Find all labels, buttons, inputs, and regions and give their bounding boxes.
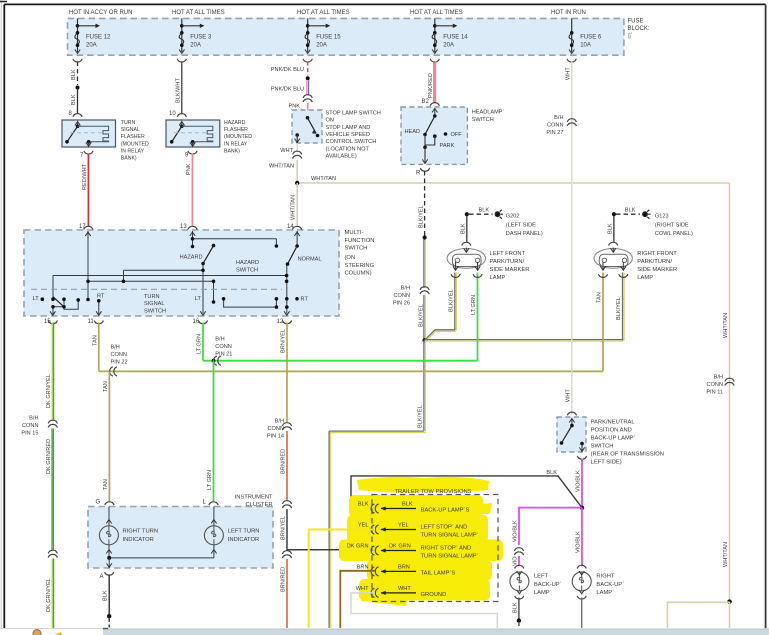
wire WHT fuse6 down — [571, 62, 573, 415]
svg-text:SIDE MARKER: SIDE MARKER — [637, 267, 677, 273]
wire LT GRN horizontal run — [203, 360, 478, 362]
svg-text:WHT: WHT — [356, 586, 369, 592]
svg-text:DK GRN/YEL: DK GRN/YEL — [46, 578, 52, 612]
svg-text:TAN: TAN — [103, 381, 109, 392]
svg-text:B/H: B/H — [111, 345, 120, 351]
turn signal blade — [53, 297, 64, 307]
junction node — [107, 556, 111, 560]
svg-text:20A: 20A — [316, 42, 327, 48]
svg-text:PARK/TURN/: PARK/TURN/ — [637, 259, 672, 265]
svg-text:20A: 20A — [443, 42, 454, 48]
bottom ui strip — [0, 628, 769, 635]
cluster ground bus — [109, 557, 214, 559]
wire BLK/YEL down-left to bottom — [329, 340, 425, 628]
junction node BLK/YEL — [422, 338, 426, 342]
svg-text:BLOCK:: BLOCK: — [628, 26, 650, 32]
fuse F3 20A — [177, 18, 212, 62]
label right back-up lamp — [596, 574, 624, 597]
connector upper — [282, 501, 291, 508]
svg-text:TAN: TAN — [597, 292, 603, 303]
svg-text:PIN 11: PIN 11 — [706, 390, 723, 396]
svg-text:MULTI-: MULTI- — [345, 230, 364, 236]
svg-text:20A: 20A — [86, 42, 97, 48]
wire VIO/BLK to left back-up lamp — [519, 508, 582, 545]
label INSTRUMENT CLUSTER — [235, 494, 273, 507]
pin A — [105, 572, 114, 575]
ground G202 — [495, 210, 503, 219]
svg-text:FUSE 15: FUSE 15 — [316, 35, 341, 41]
label turn signal flasher — [121, 120, 149, 162]
junction splice — [76, 86, 80, 90]
svg-text:(LEFT SIDE: (LEFT SIDE — [506, 222, 536, 228]
svg-text:PIN 15: PIN 15 — [21, 431, 38, 437]
svg-text:(RIGHT SIDE: (RIGHT SIDE — [655, 222, 689, 228]
svg-text:HOT AT ALL TIMES: HOT AT ALL TIMES — [172, 10, 225, 16]
svg-text:PNK: PNK — [288, 104, 300, 110]
svg-text:BRN: BRN — [398, 564, 410, 570]
normal blade — [286, 244, 299, 266]
svg-text:WHT: WHT — [566, 67, 572, 80]
wire BLK/WHT fuse3 — [181, 62, 183, 115]
junction splice — [306, 76, 310, 80]
label stop lamp switch — [326, 111, 381, 160]
connector B/H CONN PIN 27 — [567, 119, 576, 126]
wire WHT/TAN to bottom — [729, 602, 731, 628]
svg-text:PIN 21: PIN 21 — [215, 352, 232, 358]
svg-text:WHT: WHT — [398, 586, 411, 592]
svg-text:SIGNAL: SIGNAL — [144, 301, 165, 307]
svg-text:VIO: VIO — [513, 556, 519, 566]
label park/neutral switch — [591, 420, 664, 466]
svg-text:HAZARD: HAZARD — [180, 254, 203, 260]
wire VIO to lamp — [518, 556, 520, 566]
junction node — [295, 181, 299, 185]
wire WHT below stop switch — [296, 143, 298, 152]
hazard flasher U2 box — [166, 120, 220, 147]
svg-text:BLK/WHT: BLK/WHT — [176, 78, 182, 103]
svg-text:TURN SIGNAL LAMPʾ: TURN SIGNAL LAMPʾ — [421, 531, 479, 538]
pin 9 — [188, 151, 197, 154]
svg-text:BLK/YEL: BLK/YEL — [418, 405, 424, 428]
wire DK GRN/YEL pin 15 — [52, 323, 53, 421]
svg-text:BLK/YEL: BLK/YEL — [449, 289, 455, 312]
svg-text:BLK: BLK — [103, 590, 109, 601]
svg-text:STOP LAMP AND: STOP LAMP AND — [326, 125, 371, 131]
connector at park/neutral switch — [567, 412, 576, 415]
connector pair VIO — [514, 548, 523, 555]
wire YEL to trailer — [309, 530, 375, 629]
wire BRN/YEL pin 12 — [286, 323, 288, 423]
wire VIO/BLK down — [581, 459, 583, 508]
wire to pin A — [108, 558, 110, 568]
svg-text:10: 10 — [169, 111, 176, 117]
wire WHT/TAN to pin 14 — [296, 183, 298, 227]
label FUSE BLOCK — [628, 19, 650, 40]
dashed divider — [31, 288, 282, 290]
svg-text:LAMPʾ: LAMPʾ — [637, 274, 655, 281]
svg-text:FUSE: FUSE — [628, 19, 644, 25]
svg-text:BACK-UPʾ: BACK-UPʾ — [596, 581, 624, 588]
wire WHT/TAN bottom branch — [667, 602, 729, 628]
svg-text:HOT IN RUN: HOT IN RUN — [551, 10, 586, 16]
wire BLK solid — [77, 90, 79, 115]
svg-text:CONN: CONN — [268, 426, 284, 432]
svg-text:BRN/RED: BRN/RED — [281, 449, 287, 474]
wire WHT/TAN horizontal run — [297, 182, 729, 184]
svg-text:LAMPʾ: LAMPʾ — [534, 589, 552, 596]
label headlamp switch — [472, 109, 505, 124]
svg-text:IN RELAY: IN RELAY — [224, 141, 248, 147]
svg-text:SWITCH: SWITCH — [144, 308, 166, 314]
svg-text:CLUSTER: CLUSTER — [246, 502, 273, 508]
connector B/H CONN PIN 26 — [420, 287, 429, 294]
svg-text:TURN: TURN — [121, 120, 136, 126]
label multi-function switch — [345, 230, 375, 277]
turn signal flasher U1 box — [62, 120, 116, 147]
svg-text:PNK/DK BLU: PNK/DK BLU — [271, 67, 304, 73]
svg-text:STEERING: STEERING — [345, 263, 375, 269]
junction node LT GRN — [212, 359, 216, 363]
junction splice — [107, 614, 111, 618]
wire BLK trailer backup feed — [351, 476, 582, 509]
contact dots — [41, 237, 299, 309]
svg-text:PARK/NEUTRAL: PARK/NEUTRAL — [591, 420, 636, 426]
svg-text:TRAILER TOW PROVISIONS: TRAILER TOW PROVISIONS — [394, 489, 471, 495]
svg-text:CONN: CONN — [22, 423, 38, 429]
right front park/turn/side marker lamp L2 — [594, 212, 632, 277]
switch interior wiring — [53, 231, 297, 316]
label TURN SIGNAL SWITCH — [144, 294, 166, 314]
svg-text:A: A — [100, 574, 104, 580]
svg-text:VIO/BLK: VIO/BLK — [513, 520, 519, 542]
svg-text:FLASHER: FLASHER — [121, 134, 145, 140]
wire below right back-up lamp — [581, 598, 583, 629]
wire BRN/RED to bottom — [286, 559, 288, 628]
svg-text:WHT/TAN: WHT/TAN — [723, 313, 729, 338]
svg-text:LEFT FRONT: LEFT FRONT — [490, 251, 526, 257]
svg-text:B/H: B/H — [401, 286, 410, 292]
svg-text:BLK: BLK — [546, 470, 557, 476]
svg-text:CONN: CONN — [111, 352, 127, 358]
wire PNK — [191, 154, 193, 227]
ground G123 — [643, 210, 651, 219]
svg-text:RIGHT FRONT: RIGHT FRONT — [637, 251, 677, 257]
svg-text:CONN: CONN — [547, 123, 563, 129]
svg-text:BACK-UPʾ: BACK-UPʾ — [534, 581, 562, 588]
multi-function switch S4 box — [24, 230, 339, 316]
svg-text:BANK): BANK) — [224, 148, 240, 154]
svg-text:BLK: BLK — [479, 208, 490, 214]
junction splice — [423, 235, 427, 239]
connector pair — [293, 151, 302, 158]
svg-text:HEAD: HEAD — [404, 129, 420, 135]
trailer row BLK back-up lamps — [358, 502, 470, 514]
svg-text:FUSE 12: FUSE 12 — [86, 35, 111, 41]
svg-text:BLK: BLK — [71, 69, 77, 80]
svg-text:BLK: BLK — [461, 223, 467, 234]
svg-text:LAMPʾ: LAMPʾ — [490, 274, 508, 281]
svg-text:POSITION AND: POSITION AND — [591, 428, 632, 434]
wire LT GRN branch to cluster — [213, 361, 215, 502]
svg-text:(MOUNTED: (MOUNTED — [121, 141, 149, 147]
svg-text:BRN/RED: BRN/RED — [281, 567, 287, 592]
svg-text:TAN: TAN — [93, 335, 99, 346]
svg-text:WHT/TAN: WHT/TAN — [723, 542, 729, 567]
svg-text:WHT/TAN: WHT/TAN — [291, 195, 297, 220]
svg-text:WHT/TAN: WHT/TAN — [269, 164, 294, 170]
svg-text:HOT IN ACCY OR RUN: HOT IN ACCY OR RUN — [69, 10, 132, 16]
svg-text:BACK-UP LAMPʾS: BACK-UP LAMPʾS — [421, 507, 470, 514]
svg-text:BRN/YEL: BRN/YEL — [281, 329, 287, 353]
svg-text:SWITCH: SWITCH — [236, 267, 258, 273]
svg-text:SWITCH: SWITCH — [345, 246, 368, 252]
label left back-up lamp — [534, 574, 562, 597]
wire BLK/YEL jog to left front lamp — [425, 273, 457, 342]
svg-text:COWL PANEL): COWL PANEL) — [655, 231, 693, 237]
svg-text:BLK: BLK — [625, 208, 636, 214]
svg-text:G202: G202 — [506, 214, 520, 220]
svg-text:OFF: OFF — [451, 132, 463, 138]
fuse F15 20A — [303, 18, 341, 62]
svg-text:FUNCTION: FUNCTION — [345, 238, 375, 244]
svg-text:LEFT: LEFT — [534, 574, 549, 580]
wire VIO/BLK to right back-up lamp — [581, 508, 583, 566]
svg-text:STOP LAMP SWITCH: STOP LAMP SWITCH — [326, 111, 381, 117]
label right turn indicator — [123, 528, 159, 543]
fuse F6 10A — [567, 18, 602, 62]
svg-text:PNK/RED: PNK/RED — [428, 73, 434, 98]
svg-text:RT: RT — [97, 294, 105, 300]
svg-text:INDICATOR: INDICATOR — [123, 537, 154, 543]
left back-up lamp L3 — [510, 565, 529, 599]
svg-text:INDICATOR: INDICATOR — [228, 537, 259, 543]
connector below switch — [577, 456, 586, 459]
svg-text:RIGHT TURN: RIGHT TURN — [123, 528, 159, 534]
svg-text:LEFT SIDE): LEFT SIDE) — [591, 460, 622, 466]
fuse F12 20A — [73, 18, 111, 62]
svg-text:LEFT TURN: LEFT TURN — [228, 528, 260, 534]
fuse F14 20A — [430, 18, 468, 62]
wire BRN/YEL dark segment — [287, 509, 375, 550]
svg-text:BLK/YEL: BLK/YEL — [418, 205, 424, 228]
wire DK GRN/YEL to bottom — [52, 559, 53, 629]
svg-text:LT: LT — [33, 296, 40, 302]
svg-text:FLASHER: FLASHER — [224, 127, 248, 133]
svg-text:PIN 27: PIN 27 — [546, 130, 563, 136]
svg-text:LT GRN: LT GRN — [471, 295, 477, 315]
svg-text:INSTRUMENT: INSTRUMENT — [235, 494, 273, 500]
label left front lamp — [490, 251, 530, 281]
svg-text:GROUND: GROUND — [421, 592, 447, 598]
svg-text:CONTROL SWITCH: CONTROL SWITCH — [326, 139, 377, 145]
svg-text:BLK: BLK — [71, 94, 77, 105]
svg-text:BACK-UP LAMPʾ: BACK-UP LAMPʾ — [591, 435, 636, 442]
svg-text:RIGHT STOPʾ AND: RIGHT STOPʾ AND — [421, 544, 472, 551]
connector lower — [48, 550, 57, 557]
svg-text:PARK/TURN/: PARK/TURN/ — [490, 259, 525, 265]
svg-text:LAMPʾ: LAMPʾ — [596, 589, 614, 596]
svg-text:B/H: B/H — [714, 375, 723, 381]
wire LT GRN left lamp riser — [477, 273, 479, 361]
svg-text:DK GRN/YEL: DK GRN/YEL — [46, 374, 52, 408]
trailer highlight marks — [339, 477, 503, 606]
label right front lamp — [637, 251, 677, 281]
svg-text:CONN: CONN — [394, 293, 410, 299]
headlamp switch S2 box — [401, 107, 467, 164]
svg-text:B2: B2 — [422, 99, 430, 105]
svg-text:BLK: BLK — [358, 502, 369, 508]
svg-text:LT GRN: LT GRN — [197, 334, 203, 354]
wire TAN pin 11 — [98, 323, 100, 372]
svg-text:(ON: (ON — [345, 255, 356, 261]
junction splice — [517, 618, 521, 622]
wire BLK below left back-up lamp — [518, 598, 520, 619]
wire BLK/YEL down to PIN26 conn — [424, 240, 426, 289]
pin 7 — [84, 151, 93, 154]
svg-text:WHT: WHT — [280, 148, 293, 154]
svg-text:R: R — [416, 171, 421, 177]
svg-text:VIO/BLK: VIO/BLK — [576, 531, 582, 553]
svg-text:SIGNAL: SIGNAL — [121, 127, 140, 133]
trailer row WHT ground — [356, 586, 447, 598]
wire PNK into stop lamp switch — [307, 103, 309, 118]
svg-text:BLK: BLK — [402, 502, 413, 508]
svg-text:20A: 20A — [190, 42, 201, 48]
svg-text:FUSE 3: FUSE 3 — [190, 35, 212, 41]
svg-text:FUSE 14: FUSE 14 — [443, 35, 468, 41]
connector B/H CONN PIN 15 — [48, 420, 57, 427]
svg-text:(LOCATION NOT: (LOCATION NOT — [326, 146, 370, 152]
svg-text:SIDE MARKER: SIDE MARKER — [490, 267, 530, 273]
pin R — [420, 168, 429, 171]
wire BLK dashed to G202 — [469, 213, 493, 215]
wire BRN/RED — [286, 431, 288, 501]
exit arrows bottom pins — [50, 311, 55, 315]
svg-text:G123: G123 — [655, 214, 669, 220]
svg-text:HOT AT ALL TIMES: HOT AT ALL TIMES — [297, 10, 350, 16]
svg-text:B/H: B/H — [275, 419, 284, 425]
svg-text:WHT/TAN: WHT/TAN — [311, 176, 336, 182]
svg-text:YEL: YEL — [358, 523, 369, 529]
svg-text:BRN: BRN — [357, 564, 369, 570]
svg-text:DK GRN: DK GRN — [347, 544, 369, 550]
wire TAN horizontal run — [99, 370, 603, 372]
svg-text:▯ʾ: ▯ʾ — [628, 33, 633, 40]
right turn indicator lamp — [99, 507, 118, 558]
wire RED/WHT — [87, 154, 89, 227]
wire TAN right lamp riser — [602, 273, 604, 372]
svg-text:PNK/DK BLU: PNK/DK BLU — [271, 87, 304, 93]
left turn indicator lamp — [204, 507, 223, 558]
svg-text:TAN: TAN — [103, 479, 109, 490]
svg-text:IN RELAY: IN RELAY — [121, 148, 145, 154]
svg-text:G: G — [96, 500, 101, 506]
svg-text:CONN: CONN — [215, 344, 231, 350]
park/neutral position and back-up lamp switch S3 — [557, 417, 586, 452]
svg-text:NORMAL: NORMAL — [298, 257, 322, 263]
svg-text:BLK: BLK — [608, 223, 614, 234]
svg-text:AVAILABLE): AVAILABLE) — [326, 154, 357, 160]
right back-up lamp L4 — [572, 565, 591, 599]
svg-text:WHT: WHT — [566, 389, 572, 402]
svg-text:YEL: YEL — [398, 523, 409, 529]
svg-text:RT: RT — [301, 297, 309, 303]
wire BLK fuse12 to flasher (dashed) — [77, 62, 79, 86]
svg-text:11: 11 — [88, 319, 95, 325]
wire BLK/YEL conn to junction — [424, 295, 426, 340]
wire BLK dash stub — [518, 623, 520, 628]
svg-text:RIGHT: RIGHT — [596, 574, 614, 580]
svg-text:TURN: TURN — [144, 294, 160, 300]
wire BLK dashed to G123 — [616, 213, 640, 215]
connector B/H CONN PIN 14 — [282, 423, 291, 430]
wire PNK/DK BLU dashed — [307, 62, 309, 76]
connector lower — [282, 551, 291, 558]
wire PNK/DK BLU solid — [307, 80, 309, 95]
trailer tow provisions box — [372, 495, 498, 602]
connector pair — [303, 95, 312, 102]
svg-text:(REAR OF TRANSMISSION: (REAR OF TRANSMISSION — [591, 452, 664, 458]
svg-text:PARK: PARK — [440, 143, 455, 149]
svg-text:VEHICLE SPEED: VEHICLE SPEED — [326, 132, 370, 138]
connector B/H CONN PIN 22 — [110, 367, 117, 376]
svg-text:LT: LT — [195, 296, 202, 302]
svg-text:DASH PANEL): DASH PANEL) — [506, 231, 543, 237]
svg-text:LEFT STOPʾ AND: LEFT STOPʾ AND — [421, 523, 468, 530]
svg-text:(MOUNTED: (MOUNTED — [224, 134, 252, 140]
label left turn indicator — [228, 528, 260, 543]
wire WHT/TAN right vertical — [729, 183, 731, 602]
wire LT GRN pin 16 — [202, 323, 204, 361]
svg-text:ON: ON — [326, 118, 334, 124]
svg-text:B/H: B/H — [215, 337, 224, 343]
svg-text:FUSE 6: FUSE 6 — [580, 35, 602, 41]
svg-text:BRN/YEL: BRN/YEL — [281, 516, 287, 540]
svg-text:COLUMN): COLUMN) — [345, 271, 372, 277]
wire TAN branch to cluster — [108, 371, 110, 502]
svg-text:BLK: BLK — [513, 602, 519, 613]
svg-text:PIN 26: PIN 26 — [393, 301, 410, 307]
junction node WHT/TAN — [727, 599, 732, 604]
svg-text:15: 15 — [44, 319, 51, 325]
svg-text:DK GRN: DK GRN — [389, 544, 411, 550]
svg-text:BANK): BANK) — [121, 156, 137, 162]
instrument cluster box — [88, 507, 273, 569]
svg-text:HOT AT ALL TIMES: HOT AT ALL TIMES — [410, 10, 463, 16]
svg-text:HAZARD: HAZARD — [224, 120, 246, 126]
svg-text:13: 13 — [180, 224, 187, 230]
svg-text:PIN 14: PIN 14 — [267, 434, 284, 440]
hazard blade — [201, 244, 215, 266]
wire BLK below cluster — [108, 575, 110, 615]
label hazard flasher — [224, 120, 252, 154]
left front park/turn/side marker lamp L1 — [447, 212, 485, 277]
junction node VIO/BLK — [580, 506, 584, 510]
wire WHT ground run — [351, 593, 497, 628]
svg-text:RED/WHT: RED/WHT — [82, 163, 88, 190]
fuse block box — [68, 18, 624, 55]
svg-text:TURN SIGNAL LAMPʾ: TURN SIGNAL LAMPʾ — [421, 552, 479, 559]
svg-text:CONN: CONN — [707, 382, 723, 388]
svg-text:SWITCH: SWITCH — [472, 117, 494, 123]
svg-text:DK GRN/RED: DK GRN/RED — [46, 439, 52, 474]
trailer row DK GRN right stop/turn — [347, 544, 479, 560]
trailer row BRN tail lamps — [357, 564, 456, 576]
wire BLK dashed stub — [108, 619, 110, 628]
wire PNK/RED fuse14 — [434, 62, 436, 104]
wire WHT/TAN down to junction — [296, 160, 298, 184]
svg-text:B/H: B/H — [29, 416, 38, 422]
